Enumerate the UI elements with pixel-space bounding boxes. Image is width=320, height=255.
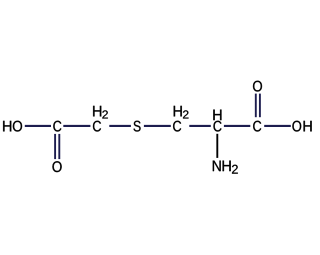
atom label H of OH (right hydroxyl) (304, 121, 312, 132)
double bond C5=O line 2 (259, 94, 261, 118)
wire HO to C1 (25, 125, 51, 127)
double bond C1=O line 1 (54, 134, 56, 159)
atom S (thioether sulfur) (134, 121, 141, 132)
atom O (carbonyl below C1) (52, 161, 61, 172)
wire S to C3 (144, 125, 171, 127)
label H of H2 above C2 (93, 106, 101, 117)
double bond C1=O line 2 (58, 134, 60, 159)
wire C4 to C5 (224, 125, 250, 127)
atom label H of HO (left hydroxyl) (3, 121, 11, 132)
double bond C5=O line 1 (255, 94, 257, 118)
wire C3 to C4 (189, 125, 211, 127)
atom C5 (right carboxyl carbon) (253, 121, 261, 132)
subscript 2 of H2 above C2 (102, 110, 108, 118)
atom C3 (methylene carbon) (173, 121, 181, 132)
atom C2 (methylene carbon) (93, 121, 101, 132)
wire C5 to OH (264, 125, 291, 127)
atom label H of NH2 (amino) (223, 161, 231, 172)
label H of H2 above C3 (174, 106, 182, 117)
atom label O of HO (left hydroxyl) (13, 121, 22, 132)
wire C2 to S (109, 125, 131, 127)
wire C1 to C2 (63, 125, 90, 127)
atom label O of OH (right hydroxyl) (292, 121, 301, 132)
atom label N of NH2 (amino) (213, 161, 221, 172)
label H above C4 (213, 110, 221, 121)
subscript 2 of H2 above C3 (183, 110, 189, 118)
atom C1 (left carboxyl carbon) (53, 121, 61, 132)
atom C4 (alpha carbon) (213, 121, 221, 132)
wire C4 to NH2 (vertical) (216, 134, 218, 158)
atom O (carbonyl above C5) (253, 81, 262, 92)
subscript 2 of NH2 (232, 165, 238, 174)
